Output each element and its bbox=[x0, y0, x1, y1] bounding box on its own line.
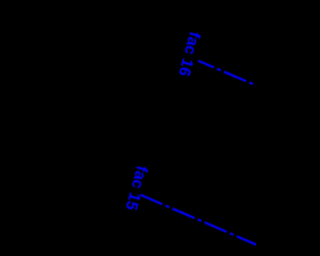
leader line for fac 15 (dash-dot) bbox=[140, 195, 260, 247]
leader line for fac 16 (dash-dot) bbox=[198, 61, 262, 88]
crystal facet label diagram bbox=[0, 0, 256, 256]
